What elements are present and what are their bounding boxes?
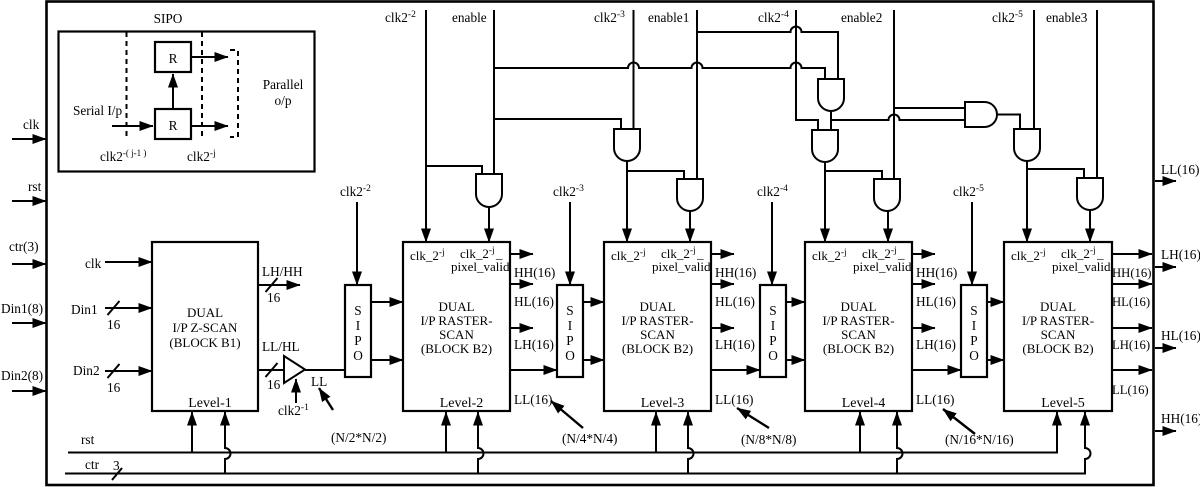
svg-text:HL(16): HL(16): [916, 294, 956, 309]
svg-text:pixel_valid: pixel_valid: [853, 259, 912, 274]
SIPO 4 output arrow upper: [986, 301, 1004, 303]
svg-text:(BLOCK B2): (BLOCK B2): [622, 341, 693, 356]
wire enable1 branch A to AND U4 (hop over clk2^-4): [697, 27, 838, 80]
svg-text:enable: enable: [452, 10, 487, 25]
Level-4 output arrow HL(16): [912, 283, 935, 285]
bus slash LL/HL: [266, 363, 278, 377]
svg-text:I/P RASTER-: I/P RASTER-: [1022, 313, 1094, 328]
svg-text:I/P RASTER-: I/P RASTER-: [822, 313, 894, 328]
SIPO 4 output arrow lower: [986, 359, 1004, 361]
svg-text:O: O: [969, 348, 979, 363]
svg-text:HH(16): HH(16): [1112, 266, 1151, 280]
svg-text:Din2(8): Din2(8): [1, 368, 43, 383]
ctr rail wire with hop into Level-5: [65, 412, 1091, 474]
ctr branch arrow with hop into Level-2: [478, 412, 484, 474]
block Level-3 title DUAL I/P RASTER-SCAN (BLOCK B2): [621, 299, 693, 356]
external output arrow LH(16): [1155, 266, 1176, 268]
wire enable3 vertical into AND U9: [1096, 10, 1098, 178]
svg-text:pixel_valid: pixel_valid: [652, 259, 711, 274]
label Parallel o/p: [263, 77, 304, 108]
svg-text:(N/16*N/16): (N/16*N/16): [945, 432, 1014, 447]
wire enable branch C to AND U2: [494, 119, 621, 129]
wire U4 output line D to AND U7 (hop over enable2): [831, 115, 965, 121]
Level-5 output arrow HH(16): [1112, 253, 1152, 255]
bus slash Din1: [108, 301, 120, 315]
Level-3 output arrow HL(16): [711, 283, 734, 285]
svg-text:Din1(8): Din1(8): [1, 301, 43, 316]
svg-text:LL(16): LL(16): [1161, 162, 1199, 177]
AND gate U8 (U7 out & clk2^-5): [1014, 129, 1040, 161]
SIPO 1 output arrow lower: [371, 359, 403, 361]
external output arrow LL(16): [1155, 180, 1176, 182]
block Level-1 title DUAL I/P Z-SCAN (BLOCK B1): [169, 305, 240, 350]
svg-text:(N/2*N/2): (N/2*N/2): [331, 430, 386, 445]
svg-text:SCAN: SCAN: [640, 327, 675, 342]
wire U5 output branch to AND U6: [825, 171, 882, 179]
block Level-4 input pin label clk_2^-j_ pixel_valid: [853, 246, 912, 274]
block Level-2 input pin label clk_2^-j_ pixel_valid: [451, 246, 510, 274]
svg-text:(N/8*N/8): (N/8*N/8): [741, 432, 796, 447]
AND gate U1 output arrow into Level-2 pixel_valid: [488, 207, 490, 242]
svg-text:ctr: ctr: [85, 457, 100, 472]
svg-text:LL(16): LL(16): [715, 392, 753, 407]
AND gate U6 output arrow into Level-4 pixel_valid: [887, 211, 889, 242]
Level-5 output arrow LL(16): [1112, 369, 1152, 371]
wire clock arrow into SIPO 2: [569, 202, 571, 285]
Level-2 output arrow HH(16): [510, 253, 533, 255]
svg-text:DUAL: DUAL: [438, 299, 474, 314]
svg-text:I: I: [972, 318, 976, 333]
svg-text:I: I: [568, 318, 572, 333]
svg-text:SCAN: SCAN: [841, 327, 876, 342]
wire enable1 vertical into AND U3: [696, 10, 698, 179]
external input arrow ctr(3): [12, 263, 46, 265]
svg-text:R: R: [169, 118, 178, 133]
svg-text:LH(16): LH(16): [715, 337, 755, 352]
svg-text:rst: rst: [28, 179, 42, 194]
AND gate U2 (enable & clk2^-3): [614, 129, 640, 161]
svg-text:HH(16): HH(16): [715, 265, 756, 280]
Level-3 output LL(16) wire into next SIPO: [711, 369, 760, 371]
block Level-4 title DUAL I/P RASTER-SCAN (BLOCK B2): [822, 299, 894, 356]
svg-text:I: I: [356, 318, 360, 333]
svg-text:16: 16: [107, 317, 121, 332]
wire clk2^-2 branch to AND U1: [426, 166, 482, 174]
wire enable2 vertical into AND U6: [893, 10, 895, 179]
external input arrow Din1(8): [12, 322, 46, 324]
svg-text:LL: LL: [311, 374, 327, 389]
svg-text:DUAL: DUAL: [639, 299, 675, 314]
svg-text:P: P: [354, 333, 361, 348]
rst branch arrow into Level-4: [859, 412, 861, 453]
Level-2 output arrow HL(16): [510, 283, 533, 285]
svg-text:enable1: enable1: [648, 10, 689, 25]
annotation arrow (N/4*N/4): [551, 401, 583, 428]
rst branch arrow into Level-2: [445, 412, 447, 453]
svg-text:(BLOCK B2): (BLOCK B2): [421, 341, 492, 356]
AND gate U3 (U2 out & enable1): [677, 179, 703, 211]
wire U2 output branch to AND U3: [627, 171, 684, 179]
external input arrow rst: [12, 200, 46, 202]
SIPO 3 output arrow upper: [786, 301, 805, 303]
svg-text:HL(16): HL(16): [514, 294, 554, 309]
bus slash Din2: [108, 364, 120, 378]
external input arrow Din2(8): [12, 390, 46, 392]
svg-text:O: O: [565, 348, 575, 363]
block Level-3 input pin label clk_2^-j_ pixel_valid: [652, 246, 711, 274]
svg-text:Level-3: Level-3: [641, 396, 685, 411]
svg-text:HL(16): HL(16): [1112, 295, 1150, 309]
svg-text:(BLOCK B1): (BLOCK B1): [169, 335, 240, 350]
Level-4 output arrow HH(16): [912, 253, 935, 255]
svg-text:HL(16): HL(16): [715, 294, 755, 309]
svg-text:ctr(3): ctr(3): [9, 239, 39, 254]
SIPO 2 output arrow upper: [583, 301, 604, 303]
wire enable branch B to AND U4 (with hops): [494, 63, 825, 79]
wire clock arrow into SIPO 3: [771, 202, 773, 285]
svg-text:LL/HL: LL/HL: [262, 339, 300, 354]
SIPO 1 box: [345, 285, 371, 377]
svg-text:o/p: o/p: [275, 93, 292, 108]
svg-text:S: S: [354, 303, 361, 318]
svg-text:I/P RASTER-: I/P RASTER-: [621, 313, 693, 328]
svg-text:P: P: [769, 333, 776, 348]
svg-text:P: P: [566, 333, 573, 348]
wire clk2^-4 into AND U5 left input: [796, 10, 818, 130]
AND gate U9 (U8 out & enable3): [1077, 178, 1103, 210]
svg-text:Level-2: Level-2: [440, 396, 484, 411]
svg-text:Parallel: Parallel: [263, 77, 304, 92]
annotation arrow (N/2*N/2): [319, 388, 333, 410]
svg-text:(BLOCK B2): (BLOCK B2): [1022, 341, 1093, 356]
Level-2 output arrow LH(16): [510, 327, 533, 329]
register R lower: [155, 109, 191, 139]
svg-text:I: I: [771, 318, 775, 333]
SIPO 2 box: [557, 285, 583, 377]
svg-text:DUAL: DUAL: [1040, 299, 1076, 314]
wire clk2^-5 vertical into AND U8: [1033, 10, 1035, 129]
wire clock arrow into SIPO 4: [971, 202, 973, 285]
dashed parallel output bracket: [230, 50, 238, 137]
Level-4 output LL(16) wire into next SIPO: [912, 369, 961, 371]
svg-text:O: O: [353, 348, 363, 363]
Level-5 output arrow LH(16): [1112, 327, 1152, 329]
svg-text:enable3: enable3: [1046, 10, 1088, 25]
wire U8 output branch to AND U9: [1027, 169, 1084, 178]
Level-4 output arrow LH(16): [912, 327, 935, 329]
svg-text:LL(16): LL(16): [1112, 383, 1149, 397]
SIPO 4 box: [961, 285, 987, 377]
register R upper: [155, 42, 191, 72]
external output arrow HL(16): [1155, 347, 1176, 349]
SIPO 1 output arrow upper: [371, 301, 403, 303]
block Level-2 title DUAL I/P RASTER-SCAN (BLOCK B2): [420, 299, 492, 356]
block Level-4 rectangle: [805, 242, 912, 411]
svg-text:DUAL: DUAL: [840, 299, 876, 314]
svg-text:SIPO: SIPO: [154, 11, 183, 26]
rst branch arrow into Level-1: [191, 412, 193, 453]
upper R output arrow: [191, 56, 228, 58]
svg-text:Din2: Din2: [73, 363, 100, 378]
bus slash ctr: [112, 468, 122, 480]
wire U4 output into AND U5 right input: [830, 111, 832, 130]
wire enable2 branch to AND U7 upper input: [894, 107, 965, 109]
Din1 input arrow into Level-1: [105, 307, 152, 309]
svg-text:HH(16): HH(16): [514, 265, 555, 280]
svg-text:(N/4*N/4): (N/4*N/4): [562, 431, 617, 446]
svg-text:S: S: [769, 303, 776, 318]
svg-text:I/P RASTER-: I/P RASTER-: [420, 313, 492, 328]
svg-text:Level-5: Level-5: [1041, 396, 1085, 411]
AND gate U6 (U5 out & enable2): [874, 179, 900, 211]
dashed clock boundary line right: [201, 32, 203, 138]
external output arrow HH(16): [1155, 430, 1176, 432]
wire clock arrow into SIPO 1: [356, 202, 358, 285]
annotation arrow (N/8*N/8): [737, 408, 769, 428]
LL/HL output wire of Level-1 into buffer: [258, 369, 284, 371]
block Level-2 rectangle: [403, 242, 510, 411]
svg-text:(BLOCK B2): (BLOCK B2): [823, 341, 894, 356]
svg-text:rst: rst: [81, 432, 95, 447]
rst branch arrow into Level-3: [655, 412, 657, 453]
svg-text:clk: clk: [85, 256, 102, 271]
svg-text:S: S: [566, 303, 573, 318]
block Level-1 rectangle: [152, 242, 258, 411]
svg-text:SCAN: SCAN: [1041, 327, 1076, 342]
AND gate U3 output arrow into Level-3 pixel_valid: [689, 211, 691, 242]
lower R output arrow: [191, 125, 228, 127]
wire clk2^-3 vertical into AND U2: [633, 10, 635, 129]
svg-text:DUAL: DUAL: [187, 305, 223, 320]
svg-text:LH(16): LH(16): [1161, 247, 1200, 262]
Din2 input arrow into Level-1: [105, 370, 152, 372]
block Level-5 rectangle: [1004, 242, 1112, 411]
svg-text:HL(16): HL(16): [1161, 328, 1200, 343]
bus slash LH/HH: [266, 278, 278, 292]
svg-text:HH(16): HH(16): [1161, 411, 1200, 426]
svg-text:LH/HH: LH/HH: [262, 264, 303, 279]
svg-text:P: P: [970, 333, 977, 348]
block Level-5 title DUAL I/P RASTER-SCAN (BLOCK B2): [1022, 299, 1094, 356]
block Level-3 rectangle: [604, 242, 711, 411]
AND gate U1 (clk2^-2 & enable): [476, 174, 502, 207]
SIPO inset box: [59, 32, 315, 172]
svg-text:enable2: enable2: [841, 10, 882, 25]
wire clk2^-2 vertical into Level-2 clk_2^-j input: [425, 10, 427, 242]
svg-text:clk: clk: [23, 117, 40, 132]
svg-text:S: S: [970, 303, 977, 318]
wire U7 output into AND U8 left input: [997, 115, 1020, 130]
SIPO 2 output arrow lower: [583, 359, 604, 361]
wire enable vertical into AND U1: [493, 10, 495, 174]
svg-text:O: O: [768, 348, 778, 363]
svg-text:HH(16): HH(16): [916, 265, 957, 280]
buffer triangle after Level-1: [284, 356, 305, 383]
dashed clock boundary line left: [126, 32, 128, 138]
svg-text:I/P Z-SCAN: I/P Z-SCAN: [173, 320, 238, 335]
svg-text:pixel_valid: pixel_valid: [451, 259, 510, 274]
SIPO 3 output arrow lower: [786, 359, 805, 361]
ctr branch arrow with hop into Level-3: [688, 412, 694, 474]
SIPO 3 box: [760, 285, 786, 377]
AND gate U8 output arrow into Level-5 clk_2^-j: [1026, 161, 1028, 242]
AND gate U5 (clk2^-4 & U4 out): [812, 130, 838, 162]
svg-text:Level-4: Level-4: [842, 396, 886, 411]
svg-text:SCAN: SCAN: [439, 327, 474, 342]
clk2^-1 arrow into buffer: [295, 379, 297, 403]
ctr branch arrow with hop into Level-4: [897, 412, 903, 474]
Level-5 output arrow HL(16): [1112, 283, 1152, 285]
clk input arrow into Level-1: [105, 261, 152, 263]
svg-text:LH(16): LH(16): [1112, 338, 1150, 352]
block Level-5 input pin label clk_2^-j_ pixel_valid: [1052, 246, 1111, 274]
serial input arrow: [112, 125, 153, 127]
AND gate U7 horizontal (enable2 & line D): [965, 102, 997, 127]
AND gate U5 output arrow into Level-4 clk_2^-j: [824, 162, 826, 242]
LH/HH output arrow of Level-1: [258, 284, 300, 286]
svg-text:LL(16): LL(16): [514, 392, 552, 407]
rst rail wire: [68, 412, 1057, 453]
svg-text:Din1: Din1: [71, 302, 98, 317]
svg-text:16: 16: [267, 290, 281, 305]
Level-2 output LL(16) wire into next SIPO: [510, 369, 557, 371]
Level-3 output arrow HH(16): [711, 253, 734, 255]
svg-text:pixel_valid: pixel_valid: [1052, 259, 1111, 274]
external input arrow clk: [12, 138, 46, 140]
AND gate U4 (enable & enable1): [818, 79, 844, 111]
ctr branch arrow with hop into Level-1: [225, 412, 231, 474]
svg-text:Level-1: Level-1: [188, 396, 232, 411]
Level-3 output arrow LH(16): [711, 327, 734, 329]
wire buffer output LL into SIPO 1: [305, 369, 345, 371]
annotation arrow (N/16*N/16): [943, 409, 975, 434]
svg-text:LL(16): LL(16): [916, 392, 954, 407]
svg-text:R: R: [169, 51, 178, 66]
wire lower R to upper R: [172, 74, 174, 109]
AND gate U9 output arrow into Level-5 pixel_valid: [1089, 210, 1091, 242]
AND gate U2 output arrow into Level-3 clk_2^-j: [626, 161, 628, 242]
svg-text:Serial I/p: Serial I/p: [73, 103, 122, 118]
svg-text:LH(16): LH(16): [916, 337, 956, 352]
svg-text:16: 16: [107, 380, 121, 395]
svg-text:LH(16): LH(16): [514, 337, 554, 352]
svg-text:16: 16: [267, 377, 281, 392]
